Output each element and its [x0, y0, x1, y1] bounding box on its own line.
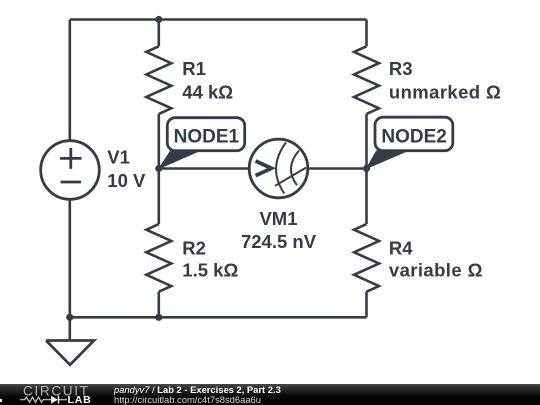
wire R3 top lead — [365, 20, 368, 47]
svg-text:10 V: 10 V — [107, 170, 146, 191]
resistor R4 — [354, 224, 379, 292]
resistor R1 — [146, 46, 171, 114]
edge artifact bottom-left — [0, 399, 2, 402]
node NODE1 flag — [159, 118, 245, 169]
voltage source V1 — [41, 141, 100, 200]
label R4 value variable — [389, 238, 483, 281]
svg-text:R4: R4 — [389, 238, 413, 259]
wire R4 top lead — [365, 169, 368, 225]
svg-text:LAB: LAB — [68, 394, 92, 405]
wire R1 bottom lead to NODE1 — [158, 114, 161, 169]
wire R3 bottom lead to NODE2 — [365, 114, 368, 169]
wire R2 bottom lead — [158, 292, 161, 318]
svg-text:VM1: VM1 — [259, 208, 297, 229]
ground — [46, 341, 94, 365]
svg-text:724.5 nV: 724.5 nV — [241, 231, 317, 252]
wire voltmeter to NODE2 — [308, 167, 367, 170]
wire bottom horizontal — [70, 316, 367, 319]
footer bar — [0, 384, 540, 405]
node NODE2 flag — [367, 117, 453, 168]
label R1 value 44 kΩ — [182, 58, 233, 102]
wire ground stem — [69, 317, 72, 340]
svg-text:R2: R2 — [182, 238, 206, 259]
wire V1 bottom to ground node — [69, 200, 72, 318]
wire R1 top lead — [158, 20, 161, 47]
svg-text:1.5 kΩ: 1.5 kΩ — [182, 260, 238, 281]
svg-text:R3: R3 — [389, 58, 413, 79]
wire R4 bottom lead — [365, 292, 368, 318]
svg-text:NODE2: NODE2 — [381, 127, 446, 148]
svg-text:variable Ω: variable Ω — [389, 260, 483, 281]
svg-text:R1: R1 — [182, 58, 206, 79]
logo resistor glyph — [20, 397, 67, 402]
svg-text:V1: V1 — [107, 147, 130, 168]
junction dot top (R1/top wire) — [155, 16, 162, 23]
voltmeter VM1 — [249, 139, 308, 198]
label VM1 value 724.5 nV — [241, 208, 317, 252]
junction dot node B (NODE2) — [363, 165, 370, 172]
junction dot ground node — [66, 314, 73, 321]
wire left vertical (top corner to V1 top) — [69, 20, 72, 142]
resistor R2 — [146, 224, 171, 292]
svg-text:NODE1: NODE1 — [174, 127, 240, 148]
wire NODE1 to voltmeter — [159, 167, 250, 170]
resistor R3 — [354, 46, 379, 114]
svg-text:44 kΩ: 44 kΩ — [182, 81, 233, 102]
junction dot bottom middle — [155, 314, 162, 321]
label R2 value 1.5 kΩ — [182, 238, 238, 281]
svg-text:unmarked Ω: unmarked Ω — [389, 81, 501, 102]
wire R2 top lead — [158, 169, 161, 225]
label V1 value — [107, 147, 146, 191]
junction dot node A (NODE1) — [155, 165, 162, 172]
label R3 value unmarked — [389, 58, 501, 102]
CircuitLab logo — [0, 384, 110, 405]
logo diode glyph — [51, 396, 58, 404]
wire top horizontal — [70, 18, 367, 21]
